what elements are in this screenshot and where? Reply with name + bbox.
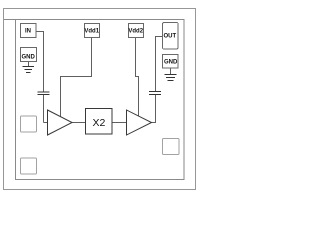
svg-text:OUT: OUT (163, 34, 176, 40)
svg-text:IN: IN (25, 28, 31, 34)
svg-text:Vdd1: Vdd1 (84, 28, 99, 34)
svg-text:X2: X2 (92, 117, 105, 129)
svg-text:Vdd2: Vdd2 (128, 28, 143, 34)
svg-text:GND: GND (164, 59, 178, 65)
svg-text:GND: GND (22, 54, 36, 60)
